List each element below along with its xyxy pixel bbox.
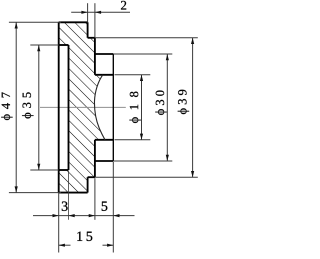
phi39 bottom arrow — [191, 171, 194, 177]
width5 right arrow — [113, 214, 119, 217]
phi30 top extension — [113, 53, 172, 55]
phi39 dimension line — [192, 38, 194, 177]
phi39 bottom extension — [95, 176, 198, 178]
step edge phi47/39 bottom — [87, 177, 89, 192]
width2 right extension — [94, 3, 96, 38]
width2 left arrow — [81, 11, 87, 14]
blind-hole drill cone silhouette — [94, 75, 105, 140]
width15 right arrow — [107, 244, 113, 247]
width3-5 dimension line — [33, 215, 135, 217]
width15 label — [77, 232, 92, 241]
bore top wall — [95, 74, 113, 76]
phi35 bottom extension — [30, 169, 58, 171]
phi18 bottom extension — [115, 139, 151, 141]
recess bottom wall — [59, 169, 69, 171]
phi47 dimension line — [15, 22, 17, 192]
bore bottom wall — [95, 139, 113, 141]
phi39 top extension — [95, 37, 198, 39]
step edge phi47/39 top — [87, 22, 89, 38]
phi30 top edge — [95, 53, 113, 55]
width3/15 left extension — [58, 193, 60, 253]
width5/15 right extension — [112, 162, 114, 253]
phi35 top extension — [30, 44, 58, 46]
phi35 dimension line — [38, 45, 40, 170]
phi30 label — [155, 91, 166, 115]
width5 left arrow — [89, 214, 95, 217]
phi47 bottom edge — [59, 192, 88, 194]
width15 dim line right — [103, 244, 114, 246]
phi47 top extension — [9, 21, 61, 23]
phi30 dimension line — [166, 54, 168, 161]
phi30 bottom arrow — [166, 155, 169, 161]
width15 dim line left — [59, 244, 71, 246]
phi30 bottom extension — [113, 160, 172, 162]
width2 label — [121, 1, 126, 10]
section hatching — [59, 22, 105, 192]
recess floor edge — [68, 45, 70, 170]
phi47 label — [1, 92, 12, 120]
phi30 top arrow — [166, 54, 169, 60]
phi30 bottom edge — [95, 160, 113, 162]
phi18 top extension — [115, 74, 151, 76]
phi18 top arrow — [140, 75, 143, 81]
phi47 bottom extension — [9, 192, 61, 194]
face edge phi39/30 top — [94, 38, 96, 75]
width2 right arrow — [95, 11, 101, 14]
phi39 top edge — [88, 37, 95, 39]
width3 left arrow — [53, 214, 59, 217]
width5 label — [102, 202, 108, 211]
phi47 top arrow — [15, 22, 18, 28]
recess top wall — [59, 44, 69, 46]
left face edge — [58, 22, 60, 192]
width2 dimension line — [71, 11, 130, 13]
phi18 dimension line — [141, 75, 143, 140]
phi39 label — [178, 90, 189, 114]
width5 left extension — [94, 178, 96, 220]
right face edge — [112, 54, 114, 161]
width15 left arrow — [59, 244, 65, 247]
phi35 bottom arrow — [37, 164, 40, 170]
centerline axis — [40, 106, 126, 108]
phi18 label — [129, 92, 140, 123]
phi35 label — [22, 92, 33, 118]
phi39 bottom edge — [88, 176, 95, 178]
phi47 top edge — [59, 21, 88, 23]
width3 right arrow — [69, 214, 75, 217]
width3 floor extension — [68, 171, 70, 220]
phi35 top arrow — [37, 45, 40, 51]
phi39 top arrow — [191, 38, 194, 44]
width2 left extension — [87, 3, 89, 22]
phi47 bottom arrow — [15, 186, 18, 192]
phi18 bottom arrow — [140, 134, 143, 140]
face edge phi39/30 bottom — [94, 140, 96, 177]
width3 label — [62, 201, 68, 210]
